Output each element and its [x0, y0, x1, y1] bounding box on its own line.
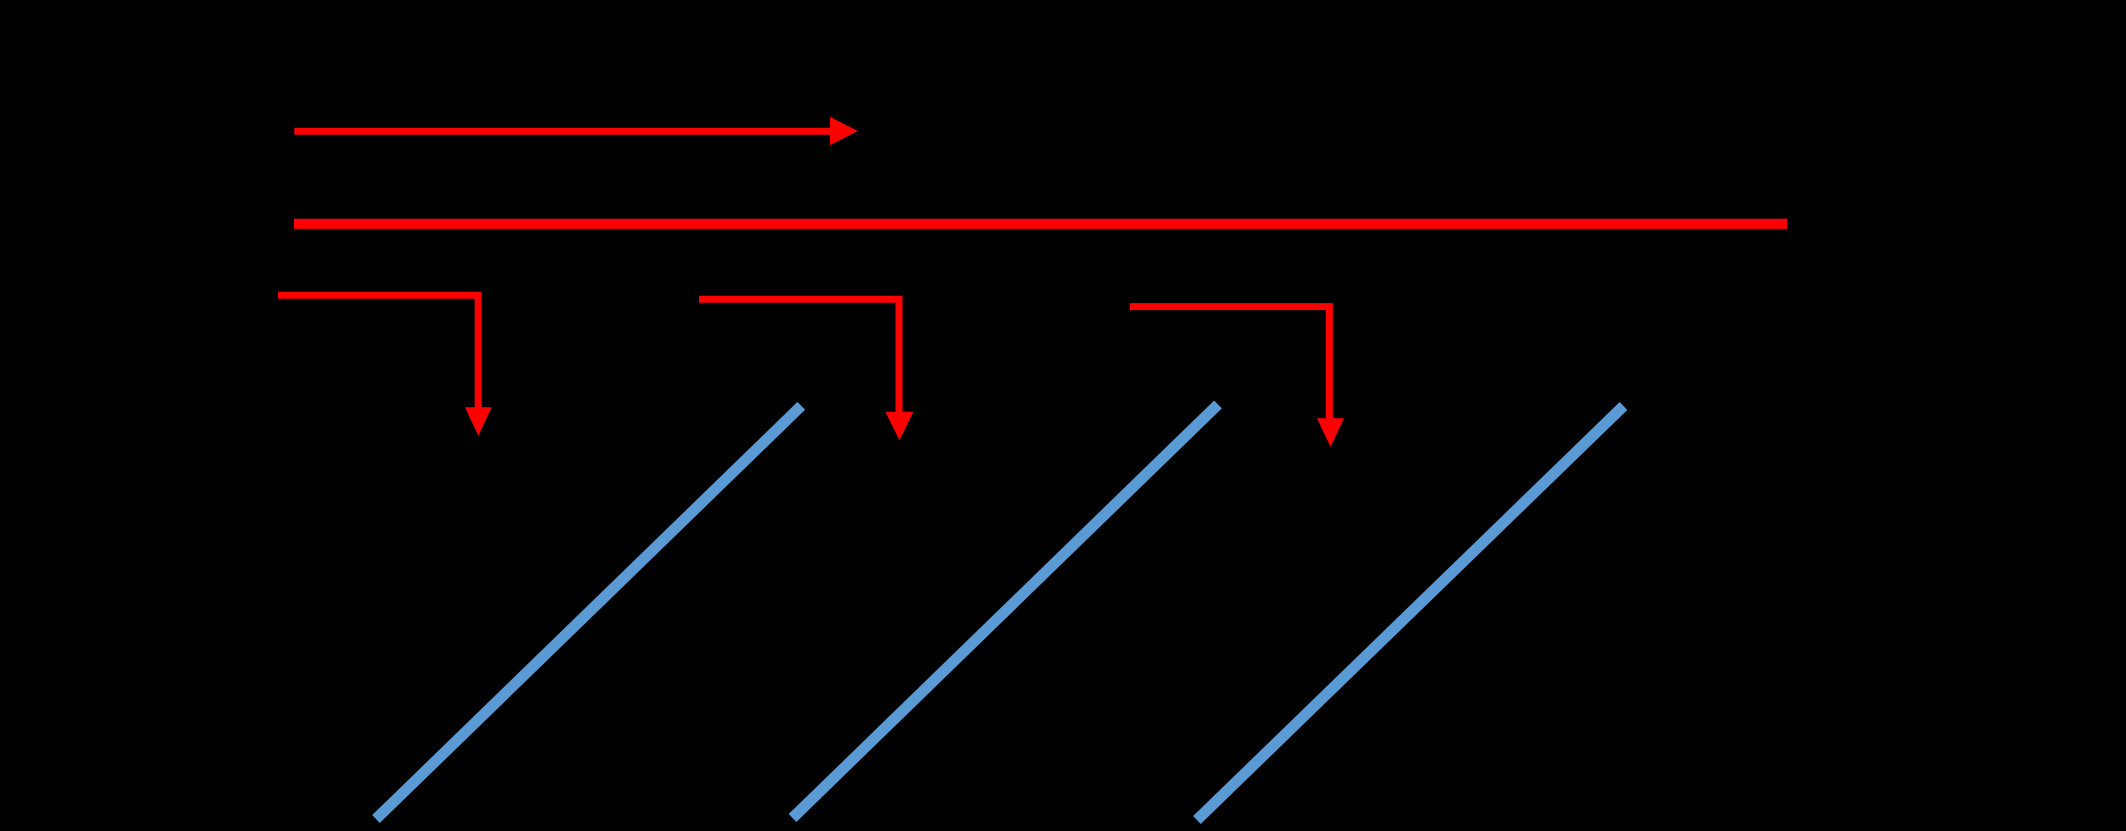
red elbow arrow 1 (left) head [465, 407, 492, 436]
red straight arrow (top) head [830, 117, 858, 145]
red elbow arrow 3 (right) bent shaft [1130, 307, 1329, 420]
blue diagonal line 3 (right) [1197, 406, 1624, 820]
red straight arrow (top) shaft [294, 128, 831, 135]
red elbow arrow 2 (middle) head [885, 412, 913, 441]
blue diagonal line 1 (left) [376, 406, 801, 819]
red elbow arrow 2 (middle) bent shaft [699, 299, 899, 412]
red elbow arrow 1 (left) bent shaft [278, 295, 478, 408]
long red horizontal line [294, 219, 1787, 229]
blue diagonal line 2 (middle) [793, 404, 1219, 818]
red elbow arrow 3 (right) head [1317, 418, 1344, 447]
